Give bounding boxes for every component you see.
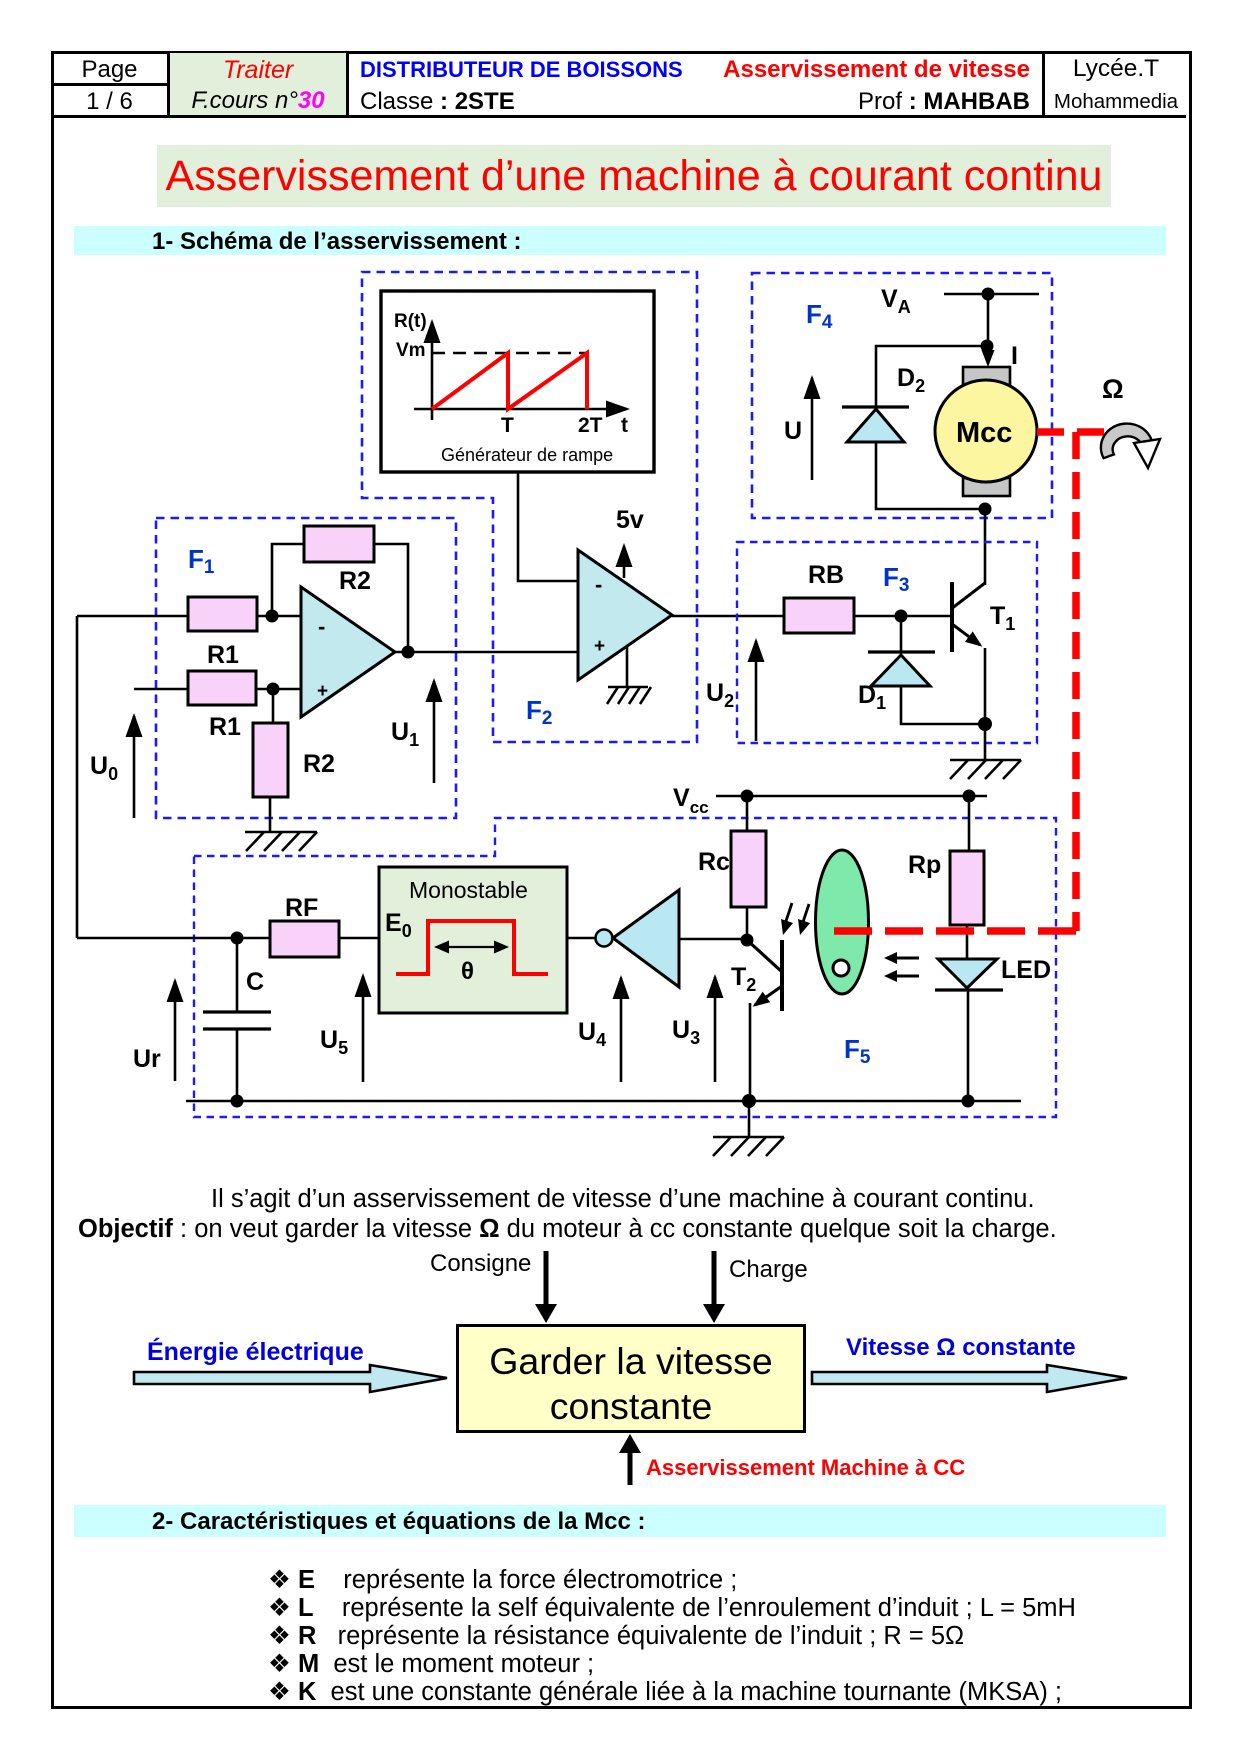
node motor bottom — [979, 503, 992, 516]
U4 arrow — [620, 978, 623, 1082]
monostable pulse waveform — [396, 921, 548, 974]
wire RF to monostable — [339, 937, 379, 940]
node on VA wire — [982, 288, 995, 301]
Ur arrow — [174, 981, 177, 1081]
wire ramp output to comparator - input — [518, 472, 578, 581]
comparator ground stub — [626, 646, 629, 687]
svg-text:Vcc: Vcc — [673, 784, 709, 817]
TITLE — [157, 145, 1111, 207]
svg-text:U1: U1 — [391, 718, 419, 750]
wire VA down to motor — [987, 294, 990, 346]
svg-text:F5: F5 — [844, 1034, 871, 1068]
svg-text:Rp: Rp — [908, 851, 941, 879]
wire D1 anode to emitter node — [901, 686, 985, 724]
wire op-amp output to comparator plus — [395, 651, 578, 654]
resistor Rc — [731, 831, 766, 907]
HEADER_BG — [169, 53, 347, 116]
bottom rail wire — [186, 1100, 1021, 1103]
svg-text:T: T — [501, 414, 514, 437]
svg-text:Monostable: Monostable — [409, 877, 528, 903]
block diagram feedback arrow — [628, 1450, 633, 1485]
wire RB to T1 base — [854, 615, 952, 618]
phototransistor T2 base bar — [780, 940, 784, 1011]
SECTION2_BAR — [74, 1505, 1166, 1537]
wire LED to bottom rail — [967, 990, 970, 1101]
ramp generator box — [381, 291, 654, 472]
svg-text:-: - — [595, 572, 602, 597]
node plus input — [267, 683, 280, 696]
U5 arrow — [362, 976, 365, 1082]
U2 arrow — [755, 641, 758, 741]
resistor RB — [784, 598, 854, 633]
motor Mcc body — [935, 380, 1037, 482]
node T2 base — [741, 934, 754, 947]
wire monostable to inverter bubble — [567, 937, 596, 940]
svg-text:U: U — [784, 417, 802, 445]
svg-text:I: I — [1011, 342, 1018, 370]
svg-text:F1: F1 — [188, 544, 215, 578]
svg-text:Vm: Vm — [396, 340, 426, 361]
node C bottom — [231, 1095, 244, 1108]
svg-text:+: + — [317, 681, 328, 702]
wire R2 feedback to output node — [374, 544, 408, 652]
wire node down to D1 — [900, 616, 903, 652]
wire feedback up from minus node — [272, 544, 304, 616]
svg-text:Rc: Rc — [698, 848, 730, 876]
main mid wire (Ur net) — [77, 937, 270, 940]
diode D1 triangle — [871, 655, 930, 686]
svg-text:Ω: Ω — [1102, 374, 1124, 404]
LED triangle — [938, 959, 997, 988]
wire U0 stub to R1b — [134, 688, 188, 691]
U0 arrow — [133, 716, 136, 818]
capacitor C top wire — [236, 938, 239, 1012]
svg-text:U3: U3 — [672, 1016, 700, 1048]
function block F1 dashed outline — [156, 518, 456, 818]
svg-text:VA: VA — [881, 285, 911, 317]
svg-text:+: + — [594, 636, 605, 657]
node minus input — [266, 610, 279, 623]
svg-text:R(t): R(t) — [394, 311, 427, 332]
LED light arrows — [896, 958, 919, 976]
ground F2 — [607, 687, 651, 704]
red feedback path horizontal to opto — [831, 927, 1076, 935]
svg-text:T1: T1 — [990, 602, 1015, 634]
wire plus node down to R2b — [272, 689, 275, 723]
node Vcc-Rp — [963, 790, 976, 803]
svg-text:U4: U4 — [578, 1018, 606, 1050]
voltage U arrow — [811, 378, 814, 480]
diode D2 cathode bar — [842, 405, 909, 408]
wire inverter to T2 base node — [679, 938, 747, 941]
inverter triangle — [613, 890, 679, 987]
node RB-D1 junction — [895, 610, 908, 623]
resistor RF — [270, 921, 339, 957]
LED cathode bar — [935, 988, 1003, 991]
wire motor bottom to T1 collector — [984, 509, 987, 585]
svg-text:D2: D2 — [897, 364, 925, 396]
wire D2 anode to motor bottom — [876, 442, 985, 509]
monostable block — [379, 867, 567, 1013]
svg-text:C: C — [246, 968, 264, 996]
svg-text:RF: RF — [285, 894, 318, 922]
svg-text:LED: LED — [1001, 956, 1051, 984]
transistor T1 base bar — [950, 582, 954, 652]
pulse width double arrow — [438, 946, 505, 948]
comparator F2 triangle — [578, 550, 672, 680]
svg-text:F2: F2 — [526, 695, 552, 729]
resistor R1a — [188, 597, 257, 631]
current I arrow into motor — [987, 346, 990, 364]
inverter bubble — [596, 930, 613, 947]
resistor R1b — [188, 671, 256, 705]
svg-text:R1: R1 — [209, 713, 241, 741]
wire Vcc to Rc — [746, 796, 749, 831]
function block F5 dashed outline — [194, 818, 1056, 1117]
wire U0 input to R1a — [77, 615, 188, 618]
function block F3 dashed outline — [737, 542, 1037, 743]
red feedback path horizontal from motor — [1037, 428, 1139, 436]
PARA — [211, 1185, 1035, 1214]
wire comparator output to RB — [672, 615, 784, 618]
svg-text:t: t — [621, 414, 628, 437]
svg-text:5v: 5v — [616, 506, 644, 534]
svg-text:θ: θ — [461, 958, 474, 985]
diode D1 cathode bar — [868, 650, 935, 653]
ramp graph vertical axis R(t) — [431, 322, 434, 420]
wire T2 emitter to bottom rail — [749, 1003, 752, 1101]
U1 arrow — [433, 681, 436, 783]
svg-text:2T: 2T — [578, 414, 603, 437]
resistor R2 feedback — [304, 526, 374, 562]
resistor R2b vertical — [253, 723, 288, 797]
BULLETS — [268, 1565, 737, 1595]
svg-text:T2: T2 — [731, 963, 756, 995]
wire left feedback vertical (U0 net) — [76, 616, 79, 938]
ground F1 — [245, 832, 317, 851]
svg-text:R2: R2 — [303, 750, 335, 778]
SECTION1_BAR — [74, 226, 1166, 255]
node T2 emitter bottom — [742, 1094, 756, 1108]
T2 collector lead — [747, 940, 781, 971]
BLOCKDIAG_TEXT — [430, 1250, 531, 1278]
U3 arrow — [714, 977, 717, 1082]
node LED bottom — [962, 1095, 975, 1108]
transistor T1 collector lead — [951, 583, 985, 609]
svg-text:R2: R2 — [339, 567, 371, 595]
diode D2 triangle — [847, 409, 904, 442]
wire R1a to op-amp minus — [257, 615, 301, 618]
wire Rc to T2 collector node — [746, 907, 749, 940]
node branch to D2 — [981, 340, 994, 353]
block diagram consigne arrow — [544, 1251, 549, 1306]
function block F4 dashed outline — [752, 273, 1052, 518]
wire Vcc rail — [716, 795, 987, 798]
svg-text:U5: U5 — [320, 1026, 348, 1058]
ground T2 — [713, 1137, 784, 1156]
wire R1b to op-amp plus — [256, 688, 301, 691]
svg-text:F3: F3 — [883, 562, 909, 596]
motor Mcc bottom brush — [963, 478, 1010, 496]
5v supply arrow — [623, 546, 626, 578]
svg-text:Ur: Ur — [133, 1045, 161, 1073]
energy input block arrow — [134, 1365, 447, 1392]
svg-text:Générateur de rampe: Générateur de rampe — [441, 445, 613, 465]
wire VA supply — [944, 293, 1039, 296]
resistor Rp — [950, 851, 984, 925]
sawtooth ramp waveform — [432, 353, 587, 409]
speed output block arrow — [812, 1365, 1127, 1392]
light arrows onto T2 — [786, 903, 809, 922]
svg-text:U0: U0 — [90, 752, 118, 784]
wire R2b to ground — [269, 797, 272, 832]
wire Vcc to Rp — [968, 796, 971, 851]
svg-text:R1: R1 — [207, 641, 239, 669]
HEADER_LINES — [167, 51, 170, 118]
node op-amp output — [402, 646, 415, 659]
transistor T1 emitter lead with arrow — [952, 624, 980, 645]
wire bottom rail to ground — [748, 1101, 751, 1137]
node Vcc-Rc — [741, 790, 754, 803]
rotation arrow — [1101, 424, 1153, 459]
svg-text:-: - — [318, 614, 325, 639]
svg-text:Mcc: Mcc — [956, 417, 1012, 449]
T2 emitter lead with arrow — [755, 986, 782, 1005]
capacitor C bottom wire — [236, 1029, 239, 1101]
ground T1 — [950, 760, 1021, 779]
svg-text:U2: U2 — [706, 679, 734, 711]
node T1 emitter / D1 — [978, 717, 992, 731]
red feedback path vertical — [1072, 432, 1080, 931]
function block F2 dashed outline (ramp generator + comparator) — [362, 272, 697, 742]
block diagram charge arrow — [712, 1251, 717, 1306]
HEADER_TEXT — [51, 56, 168, 84]
svg-text:F4: F4 — [806, 299, 833, 333]
capacitor C plates — [203, 1010, 271, 1013]
node RF-C junction — [231, 932, 244, 945]
motor Mcc top brush — [963, 367, 1010, 385]
op-amp U1 triangle — [301, 587, 395, 717]
opto ellipse window — [833, 960, 849, 976]
wire T1 emitter down — [984, 648, 987, 760]
svg-text:RB: RB — [808, 561, 844, 589]
wire Rp to LED — [966, 925, 969, 959]
wire node to D2 cathode — [876, 346, 987, 407]
ramp graph horizontal axis t — [414, 408, 627, 411]
Vm dashed level line — [432, 352, 587, 355]
opto-coupler ellipse — [816, 850, 869, 994]
